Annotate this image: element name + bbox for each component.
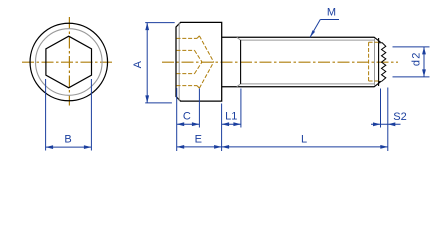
dimension d2 top extension line <box>393 46 430 48</box>
dimension S2 dimension line <box>371 123 401 125</box>
front view horizontal centerline <box>22 61 113 63</box>
svg-text:E: E <box>195 134 202 146</box>
svg-text:M: M <box>327 7 336 19</box>
dimension L right arrow <box>380 145 388 149</box>
dimension C left arrow <box>177 122 185 126</box>
tip chamfer bottom <box>374 82 380 87</box>
side view centerline <box>162 61 398 63</box>
hidden socket cone lower <box>199 62 213 88</box>
hidden socket corner peak top <box>197 36 199 39</box>
thread root bottom line <box>241 83 375 85</box>
dimension A top arrow <box>145 23 149 31</box>
hidden socket cone upper <box>199 36 213 62</box>
M leader diagonal <box>310 20 320 38</box>
M leader arrow <box>310 30 315 37</box>
dimension A dimension line <box>146 23 148 103</box>
front view vertical centerline <box>68 17 70 106</box>
dimension S2 left extension line <box>380 89 382 128</box>
thread root lead-in top <box>237 37 241 40</box>
dimension d2 bottom extension line <box>393 76 430 78</box>
dimension L dimension line <box>222 146 388 148</box>
dimension L1 dimension line <box>222 123 241 125</box>
dimension C left extension line <box>176 88 178 151</box>
dimension C dimension line <box>177 123 200 125</box>
hidden socket corner line bottom <box>177 73 195 75</box>
hidden tip chamfer bottom line <box>369 80 379 82</box>
M leader horizontal <box>320 19 339 21</box>
dimension L1 right arrow <box>233 122 241 126</box>
dimension B dimension line <box>46 146 92 148</box>
shank top outline <box>222 36 375 38</box>
dimension S2 right arrow <box>388 122 396 126</box>
dimension C right arrow <box>192 122 200 126</box>
head chamfer line <box>178 23 180 101</box>
dimension S2 left arrow <box>373 122 381 126</box>
hidden socket inner cone upper <box>195 50 203 62</box>
front view chamfer circle <box>36 29 103 96</box>
hidden socket inner cone lower <box>195 62 203 74</box>
dimension L1 left extension line <box>221 104 223 152</box>
dimension d2 top arrow <box>422 47 426 55</box>
dimension B left extension line <box>45 79 47 151</box>
thread root top line <box>241 39 375 41</box>
dimension A bottom arrow <box>145 95 149 103</box>
svg-text:d2: d2 <box>411 51 423 66</box>
hex socket hexagon <box>46 36 92 88</box>
dimension L left arrow <box>222 145 230 149</box>
svg-text:S2: S2 <box>393 111 406 123</box>
dimension S2 right extension line <box>387 88 389 152</box>
svg-text:L: L <box>301 134 307 146</box>
dimension L1 left arrow <box>222 122 230 126</box>
dimension E right arrow <box>214 145 222 149</box>
tip end face <box>378 38 380 86</box>
svg-text:B: B <box>64 134 71 146</box>
hidden socket flat line top <box>177 37 198 39</box>
svg-text:C: C <box>183 111 191 123</box>
hidden socket flat line bottom <box>177 85 198 87</box>
dimension A bottom extension line <box>145 102 172 104</box>
hidden tip chamfer vertical <box>368 42 370 81</box>
dimension C right extension line <box>198 89 200 128</box>
tip chamfer top <box>374 37 380 42</box>
dimension A top extension line <box>145 22 175 24</box>
front view outer circle <box>30 23 108 101</box>
thread start line <box>240 40 242 84</box>
dimension B left arrow <box>46 145 54 149</box>
shank bottom outline <box>222 86 375 88</box>
svg-text:A: A <box>132 60 144 68</box>
head outline <box>176 22 222 101</box>
tip chamfer circle line <box>374 39 376 86</box>
dimension L1 right extension line <box>240 89 242 128</box>
thread root lead-in bottom <box>237 84 241 87</box>
hidden tip chamfer top line <box>369 41 379 43</box>
dimension d2 bottom arrow <box>422 69 426 77</box>
thread zigzag <box>378 43 386 82</box>
svg-text:L1: L1 <box>225 111 237 123</box>
dimension B right extension line <box>90 79 92 151</box>
hidden socket corner peak bottom <box>197 86 199 89</box>
dimension E left arrow <box>177 145 185 149</box>
hidden socket corner line top <box>177 49 195 51</box>
dimension d2 dimension line <box>423 47 425 77</box>
dimension E dimension line <box>177 146 222 148</box>
dimension B right arrow <box>84 145 92 149</box>
